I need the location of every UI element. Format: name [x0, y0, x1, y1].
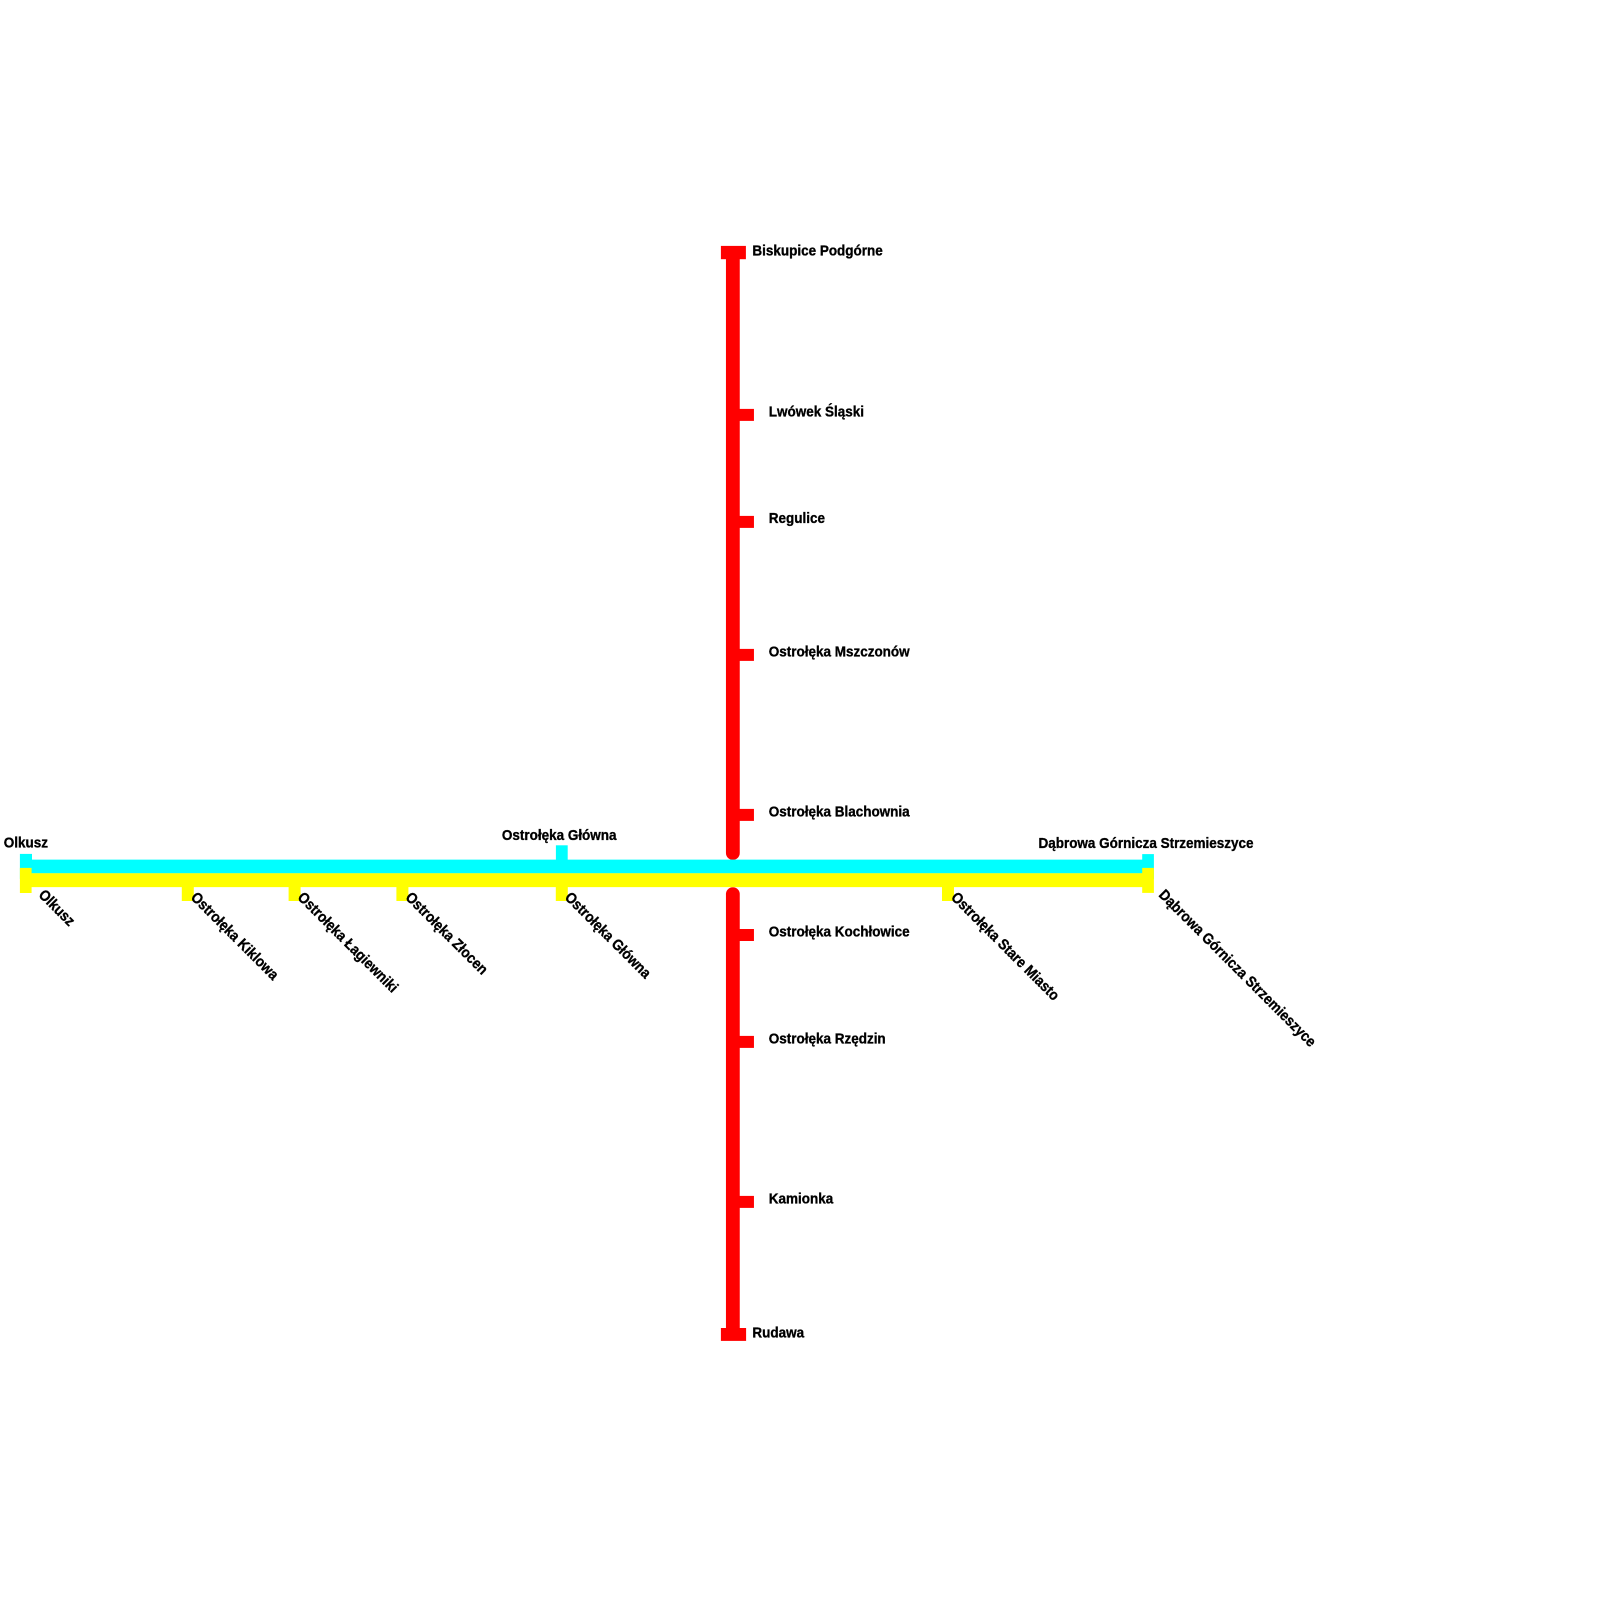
node Ostroleka Rzedzin tick	[733, 1036, 754, 1048]
node Ostroleka Kiklowa yellow tick	[182, 880, 194, 901]
wire yellow line (Olkusz to Dabrowa Gornicza Strzemieszyce)	[26, 873, 1148, 887]
svg-text:Biskupice Podgórne: Biskupice Podgórne	[752, 243, 882, 260]
node Biskupice Podgorne terminal box	[721, 246, 746, 259]
svg-text:Ostrołęka Mszczonów: Ostrołęka Mszczonów	[769, 644, 911, 661]
svg-text:Dąbrowa Górnicza Strzemieszyce: Dąbrowa Górnicza Strzemieszyce	[1038, 835, 1253, 852]
svg-text:Ostrołęka Rzędzin: Ostrołęka Rzędzin	[769, 1031, 886, 1048]
wire cyan line (Olkusz to Dabrowa Gornicza Strzemieszyce)	[26, 860, 1148, 874]
svg-text:Olkusz: Olkusz	[4, 835, 48, 852]
node Ostroleka Lagiewniki yellow tick	[289, 880, 301, 901]
node Dabrowa Gornicza Strzemieszyce cyan terminal box	[1142, 854, 1154, 879]
node Ostroleka Glowna cyan tick	[556, 845, 568, 866]
node Regulice tick	[733, 516, 754, 528]
svg-text:Kamionka: Kamionka	[769, 1191, 834, 1208]
node Dabrowa Gornicza Strzemieszyce yellow terminal box	[1142, 868, 1154, 893]
node Olkusz yellow terminal box	[20, 868, 32, 893]
node Lwowek Slaski tick	[733, 409, 754, 421]
node Ostroleka Blachownia tick	[733, 809, 754, 821]
svg-text:Ostrołęka Kochłowice: Ostrołęka Kochłowice	[769, 924, 910, 941]
node Ostroleka Glowna yellow tick	[556, 880, 568, 901]
svg-text:Regulice: Regulice	[769, 510, 825, 527]
node Ostroleka Kochlowice tick	[733, 929, 754, 941]
svg-text:Ostrołęka Główna: Ostrołęka Główna	[502, 827, 618, 844]
svg-text:Ostrołęka Blachownia: Ostrołęka Blachownia	[769, 804, 911, 821]
node Rudawa terminal box	[721, 1328, 746, 1341]
node Kamionka tick	[733, 1196, 754, 1208]
node Olkusz cyan terminal box	[20, 854, 32, 879]
wire red line south segment (crossing to Rudawa)	[726, 894, 740, 1333]
node Ostroleka Stare Miasto yellow tick	[942, 880, 954, 901]
node Ostroleka Zlocen yellow tick	[396, 880, 408, 901]
svg-text:Lwówek Śląski: Lwówek Śląski	[769, 402, 864, 421]
node Ostroleka Mszczonow tick	[733, 649, 754, 661]
svg-text:Rudawa: Rudawa	[752, 1325, 805, 1342]
wire red line north segment (Biskupice Podgorne to crossing)	[726, 254, 740, 854]
